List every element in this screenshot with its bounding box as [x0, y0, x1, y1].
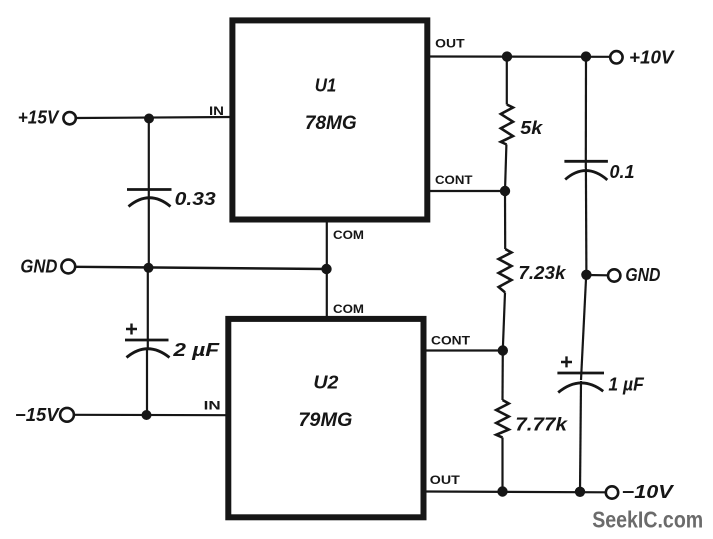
svg-text:0.33: 0.33 — [175, 189, 216, 209]
regulator U1 box — [232, 20, 427, 219]
capacitor C4 1uF — [557, 275, 604, 492]
node OUT2/R3 junction — [497, 486, 507, 496]
value label 1 uF — [608, 375, 644, 395]
U2 reference label — [313, 373, 338, 393]
wire U1 CONT — [430, 190, 505, 192]
svg-text:−15V: −15V — [15, 405, 61, 425]
terminal GND left — [61, 260, 75, 274]
capacitor C4 1uF polarity plus — [561, 356, 572, 367]
wire CONT1 to R2 — [504, 191, 506, 249]
wire OUT junction to R1 — [506, 57, 508, 105]
wire +15V rail — [76, 117, 232, 118]
label +15V — [18, 108, 61, 128]
node OUT/R1 junction — [502, 51, 512, 61]
terminal +10V — [610, 51, 622, 63]
value label 0.1 — [610, 162, 635, 182]
label GND right — [625, 265, 660, 285]
svg-text:GND: GND — [20, 257, 57, 277]
pin label COM (U2) — [333, 302, 364, 316]
value label 7.23k — [518, 263, 566, 283]
svg-text:U1: U1 — [315, 76, 337, 96]
svg-text:OUT: OUT — [435, 37, 465, 51]
wire R1 to CONT1 — [505, 145, 506, 192]
pin label OUT (U1) — [435, 37, 465, 51]
resistor R3 7.77k — [496, 400, 509, 438]
svg-text:OUT: OUT — [430, 473, 461, 487]
value label 0.33 — [175, 189, 216, 209]
node OUT/C3 junction — [581, 51, 591, 61]
capacitor C2 2uF — [125, 268, 170, 415]
wire U2 CONT — [426, 349, 503, 351]
terminal -10V — [606, 486, 618, 498]
regulator U2 box — [228, 319, 423, 517]
resistor R1 5k — [501, 105, 513, 145]
svg-text:CONT: CONT — [435, 173, 473, 187]
svg-text:1 µF: 1 µF — [608, 375, 644, 395]
wire COM vertical — [326, 220, 328, 319]
svg-text:COM: COM — [333, 228, 364, 242]
pin label OUT (U2) — [430, 473, 461, 487]
svg-text:+15V: +15V — [18, 108, 61, 128]
node GND/C1 junction — [144, 263, 154, 273]
wire +10V rail to C3 — [585, 57, 587, 168]
watermark SeekIC.com — [592, 507, 703, 533]
pin label CONT (U2) — [431, 333, 471, 347]
pin label COM (U1) — [333, 228, 364, 242]
label +10V — [629, 48, 676, 68]
value label 2 uF — [172, 340, 220, 360]
wire U1 OUT to +10V — [430, 55, 610, 57]
U1 reference label — [315, 76, 337, 96]
svg-text:IN: IN — [209, 104, 224, 118]
wire CONT2 to R3 — [501, 351, 503, 401]
wire R3 to OUT2 — [501, 438, 503, 492]
svg-text:SeekIC.com: SeekIC.com — [592, 507, 703, 533]
terminal GND right — [608, 269, 620, 281]
label -10V — [622, 482, 675, 502]
svg-text:78MG: 78MG — [305, 113, 357, 134]
svg-text:U2: U2 — [313, 373, 338, 393]
svg-text:0.1: 0.1 — [610, 162, 635, 182]
svg-text:+10V: +10V — [629, 48, 676, 68]
capacitor C1 0.33 — [127, 119, 172, 269]
svg-text:GND: GND — [625, 265, 660, 285]
wire GND right stub — [586, 274, 607, 276]
svg-text:2 µF: 2 µF — [172, 340, 220, 360]
pin label IN (U2) — [204, 399, 221, 413]
wire R2 to CONT2 — [503, 292, 505, 350]
wire GND rail — [75, 267, 326, 269]
node OUT2/C4 junction — [575, 487, 585, 497]
svg-text:7.23k: 7.23k — [518, 263, 566, 283]
svg-text:CONT: CONT — [431, 333, 471, 347]
label -15V — [15, 405, 61, 425]
capacitor C2 2uF polarity plus — [126, 324, 137, 335]
node CONT2 junction — [498, 345, 508, 355]
terminal -15V — [60, 408, 74, 422]
svg-text:7.77k: 7.77k — [515, 415, 568, 435]
svg-text:−10V: −10V — [622, 482, 675, 502]
label GND left — [20, 257, 57, 277]
svg-text:IN: IN — [204, 399, 221, 413]
capacitor C3 0.1 — [564, 161, 608, 274]
node GND right junction — [581, 270, 591, 280]
terminal +15V — [63, 112, 75, 124]
wire -15V rail — [74, 414, 228, 417]
value label 5k — [520, 118, 543, 138]
wire U2 OUT to -10V — [426, 490, 606, 493]
svg-text:79MG: 79MG — [298, 410, 352, 431]
pin label CONT (U1) — [435, 173, 473, 187]
svg-text:COM: COM — [333, 302, 364, 316]
resistor R2 7.23k — [499, 249, 512, 292]
U2 value 79MG — [298, 410, 352, 431]
svg-text:5k: 5k — [520, 118, 543, 138]
U1 value 78MG — [305, 113, 357, 134]
node COM/GND junction — [321, 264, 331, 274]
node +15V/C1 junction — [144, 114, 154, 124]
node CONT1 junction — [500, 186, 510, 196]
pin label IN (U1) — [209, 104, 224, 118]
node -15V/C2 junction — [142, 410, 152, 420]
value label 7.77k — [515, 415, 568, 435]
